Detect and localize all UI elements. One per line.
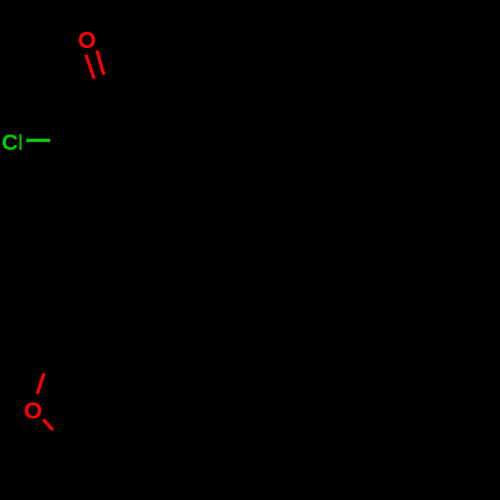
svg-text:O: O	[78, 27, 96, 53]
double bond C1=O1, outer line (red half)	[86, 55, 94, 79]
svg-text:Cl: Cl	[2, 130, 23, 155]
bond O2-C(aryl) (red half, down-right from O2)	[43, 419, 52, 430]
double bond C1=O1, inner line (red half)	[97, 50, 104, 74]
bond C2-Cl1 (green half)	[26, 139, 50, 142]
svg-text:O: O	[24, 397, 42, 423]
bond O2-CH3 (red half, up-right from O2)	[37, 374, 44, 394]
